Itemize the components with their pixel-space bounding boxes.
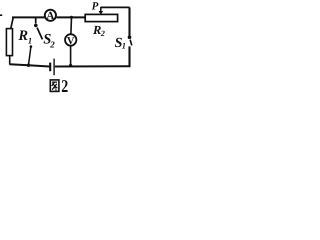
svg-text:R: R <box>17 28 28 44</box>
rheostat slider stem P <box>100 7 102 11</box>
voltmeter V1 circle <box>65 34 76 45</box>
wire bottom left segment <box>10 64 50 66</box>
svg-text:2: 2 <box>61 76 68 96</box>
wire V bottom lead <box>70 46 72 66</box>
battery cell short plate <box>49 63 51 72</box>
battery cell long plate <box>53 59 55 76</box>
node junction dot V-bottom <box>69 64 72 67</box>
wire S2 bottom lead <box>29 47 31 65</box>
switch S2 blade <box>37 28 42 40</box>
svg-text:V: V <box>67 36 75 47</box>
resistor R2 box <box>85 14 117 21</box>
node junction dot V-top <box>70 16 73 19</box>
resistor R1 box <box>6 29 12 56</box>
switch S2 top contact dot <box>34 24 38 28</box>
wire R1 top lead <box>11 17 13 29</box>
wire slider top <box>101 6 130 8</box>
svg-text:2: 2 <box>49 40 55 50</box>
node junction dot S2-bottom <box>27 63 30 66</box>
wire right border lower <box>128 46 130 66</box>
svg-text:1: 1 <box>122 41 126 51</box>
wire bottom right segment <box>55 65 131 67</box>
switch S1 contact dot <box>128 35 132 39</box>
wire top middle segment <box>57 16 86 18</box>
switch S2 bottom contact dot <box>30 45 33 48</box>
svg-text:P: P <box>92 0 99 12</box>
wire right border upper <box>128 7 130 35</box>
wire V top lead <box>70 17 73 34</box>
caption 图2 (figure 2) : hand-drawn 图 glyph <box>50 80 59 92</box>
rheostat slider arrowhead <box>99 11 104 15</box>
wire left tick top-left <box>0 14 2 16</box>
wire S2 top lead <box>35 17 37 23</box>
svg-text:2: 2 <box>100 29 105 38</box>
svg-text:1: 1 <box>28 35 32 45</box>
wire top left segment <box>12 16 44 18</box>
switch S1 blade <box>130 40 132 46</box>
wire R1 bottom lead <box>9 55 11 64</box>
ammeter A1 circle <box>45 10 56 21</box>
svg-text:A: A <box>46 10 54 22</box>
